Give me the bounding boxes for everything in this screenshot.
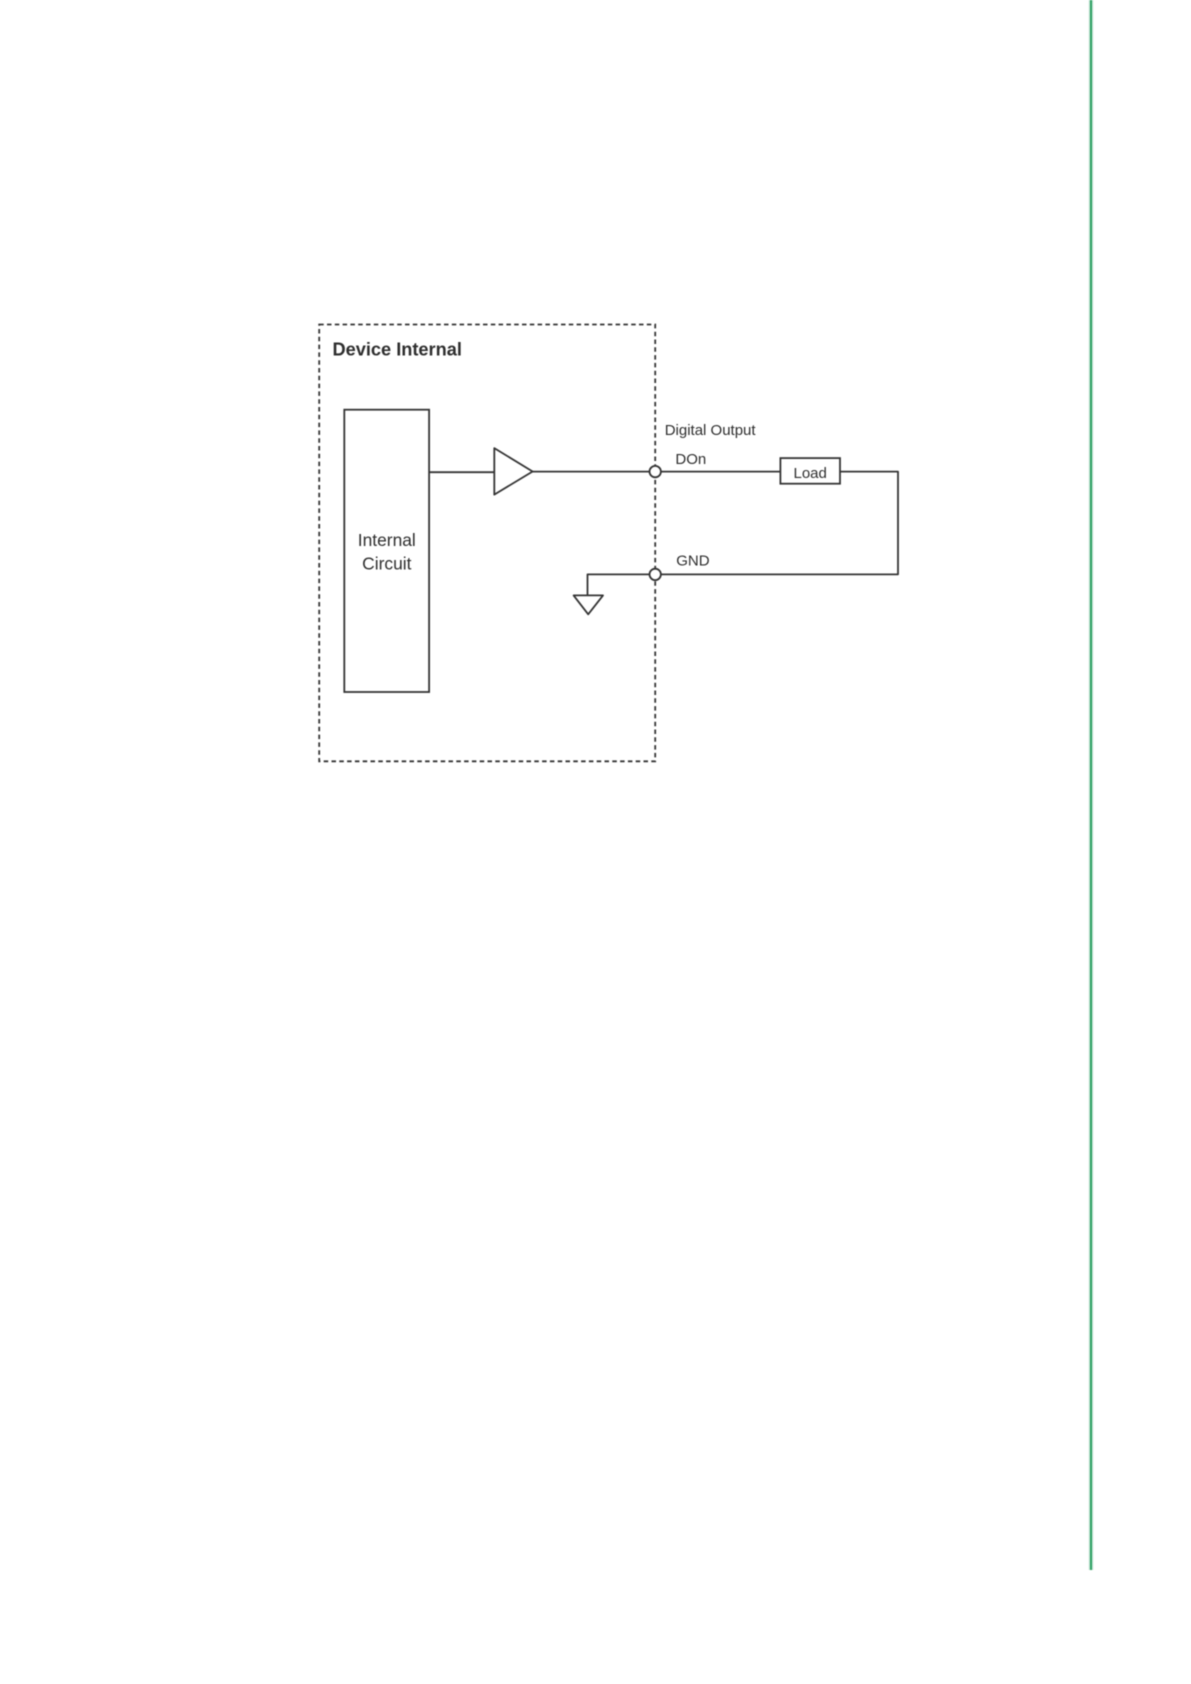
svg-text:Device Internal: Device Internal <box>333 339 462 359</box>
wire rect to buffer <box>429 471 494 473</box>
svg-text:Circuit: Circuit <box>362 553 411 573</box>
buffer U1 <box>494 448 532 495</box>
svg-text:Internal: Internal <box>358 530 416 550</box>
svg-text:Load: Load <box>794 465 827 482</box>
ground symbol <box>574 595 603 614</box>
node DOn terminal <box>650 466 661 477</box>
dashed box Device Internal <box>319 325 655 762</box>
resistor Load box <box>780 458 840 484</box>
green page accent line <box>1089 0 1094 1570</box>
wire Load to right and down to GND rail <box>661 472 898 575</box>
svg-text:DOn: DOn <box>675 451 706 468</box>
svg-text:GND: GND <box>676 553 710 570</box>
wire GND node to ground stub <box>588 574 650 595</box>
wire DOn node to Load <box>661 471 781 473</box>
svg-text:Digital Output: Digital Output <box>665 422 757 439</box>
wire buffer to DOn node <box>533 471 650 473</box>
node GND terminal <box>650 569 661 580</box>
internal circuit block <box>344 410 429 692</box>
